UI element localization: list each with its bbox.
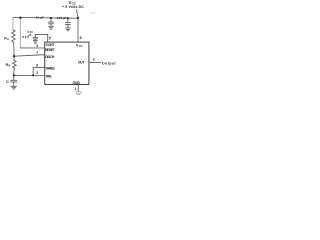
svg-text:6: 6 [36, 64, 38, 68]
svg-text:4: 4 [36, 44, 38, 48]
svg-text:5: 5 [49, 36, 51, 40]
svg-text:3: 3 [93, 58, 95, 62]
svg-text:7: 7 [36, 51, 38, 55]
svg-text:2: 2 [36, 71, 38, 75]
svg-text:RESET: RESET [45, 48, 55, 52]
svg-text:8: 8 [80, 36, 82, 40]
svg-text:0.01 µF: 0.01 µF [57, 16, 67, 20]
svg-text:V: V [69, 0, 72, 5]
svg-text:THRES: THRES [45, 66, 55, 70]
svg-text:R: R [6, 63, 9, 67]
svg-text:OUT: OUT [78, 60, 85, 64]
svg-text:1: 1 [75, 87, 77, 91]
svg-text:R: R [4, 36, 7, 40]
svg-text:8.5 k: 8.5 k [22, 35, 29, 39]
svg-text:CC: CC [79, 44, 83, 48]
svg-text:10 µF: 10 µF [36, 15, 44, 19]
svg-text:B: B [9, 63, 11, 67]
svg-text:CONT: CONT [46, 43, 55, 47]
svg-text:DISCH: DISCH [45, 55, 55, 59]
svg-text:A: A [7, 37, 9, 41]
svg-text:C: C [6, 80, 9, 84]
svg-text:Output: Output [102, 61, 116, 65]
svg-text:GND: GND [73, 81, 81, 85]
svg-text:+ 5 Volts DC: + 5 Volts DC [62, 5, 84, 9]
svg-text:TRIG: TRIG [46, 74, 52, 78]
